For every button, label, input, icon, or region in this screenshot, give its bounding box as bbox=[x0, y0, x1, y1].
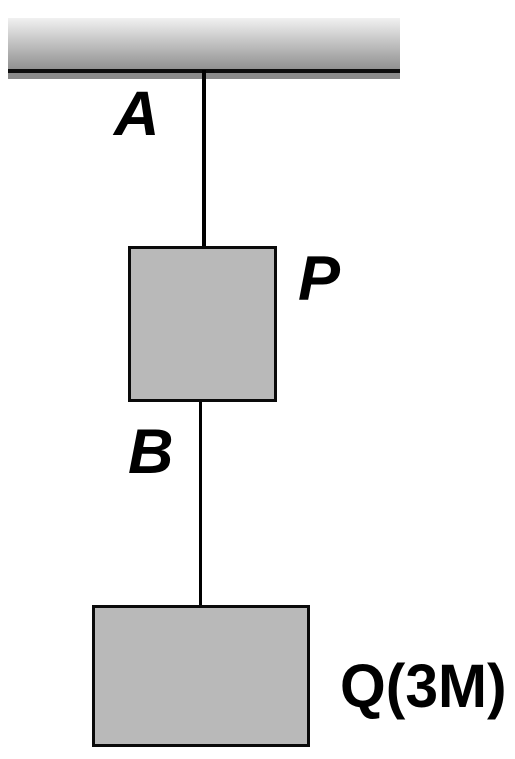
string A (wire from ceiling to block P) bbox=[202, 70, 205, 247]
ceiling (gradient bar) bbox=[8, 18, 400, 69]
block P bbox=[128, 246, 277, 402]
ceiling bottom black edge bbox=[8, 69, 400, 73]
label P bbox=[298, 248, 340, 311]
block Q bbox=[92, 605, 310, 747]
ceiling lower gray band bbox=[8, 73, 400, 79]
string B (wire from block P to block Q) bbox=[199, 402, 202, 606]
label Q(3M) bbox=[340, 656, 507, 717]
label A bbox=[114, 83, 160, 146]
label B bbox=[128, 421, 174, 484]
